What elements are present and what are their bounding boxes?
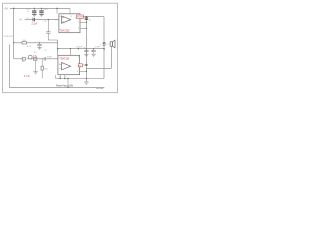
svg-text:10uF: 10uF bbox=[47, 56, 53, 58]
svg-text:P0.5W: P0.5W bbox=[77, 17, 84, 19]
svg-text:2.2uF: 2.2uF bbox=[32, 24, 38, 26]
svg-text:TDA7233: TDA7233 bbox=[60, 29, 70, 32]
svg-text:100u: 100u bbox=[43, 9, 49, 11]
svg-text:TDA7236: TDA7236 bbox=[59, 57, 69, 60]
svg-text:4.7uF: 4.7uF bbox=[94, 46, 100, 48]
svg-text:4.7uF: 4.7uF bbox=[24, 76, 30, 78]
svg-text:C9 9-12V: C9 9-12V bbox=[4, 36, 14, 38]
svg-text:ckt.com: ckt.com bbox=[96, 87, 103, 90]
svg-text:1u: 1u bbox=[27, 11, 29, 13]
svg-text:IN: IN bbox=[19, 19, 22, 22]
svg-text:+9V: +9V bbox=[4, 6, 9, 10]
svg-text:4.7u: 4.7u bbox=[33, 56, 38, 58]
svg-text:100uF: 100uF bbox=[76, 46, 83, 48]
svg-text:Power Amp 2x1W: Power Amp 2x1W bbox=[56, 85, 74, 88]
